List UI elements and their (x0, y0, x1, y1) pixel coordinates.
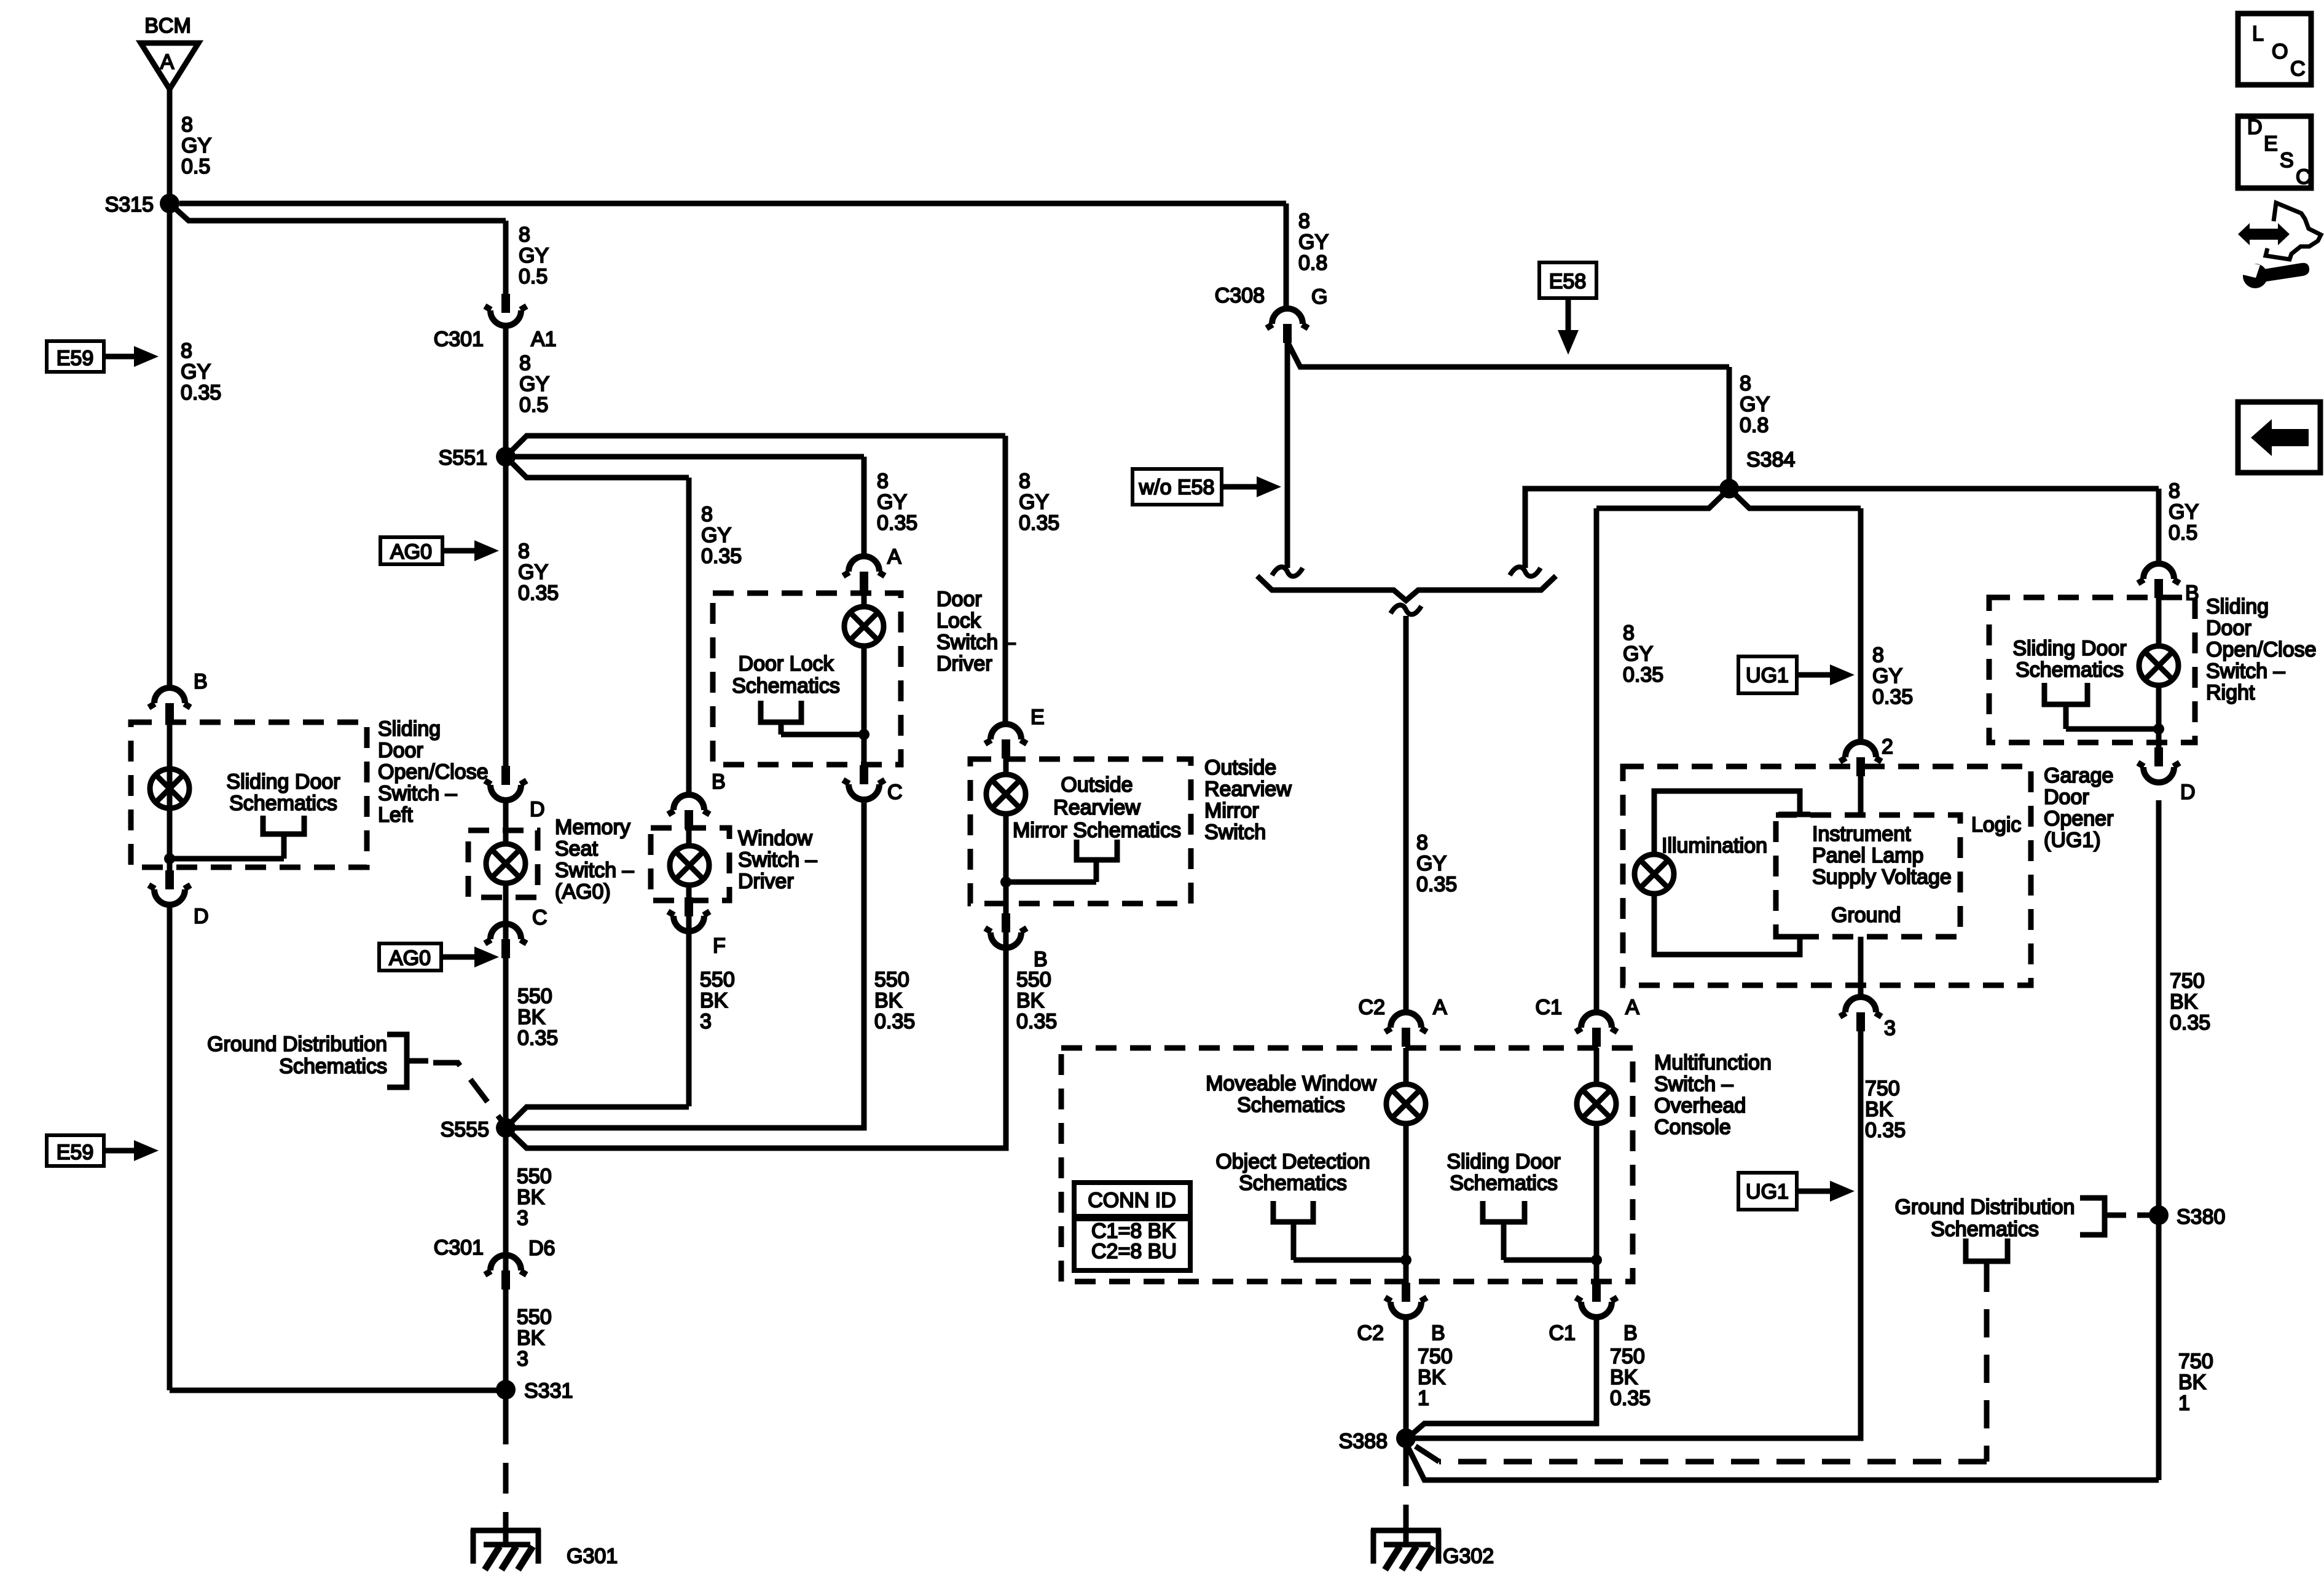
svg-text:750: 750 (2170, 969, 2205, 993)
svg-text:Window: Window (738, 827, 812, 850)
svg-text:8: 8 (1416, 831, 1428, 854)
svg-text:Overhead: Overhead (1654, 1094, 1746, 1117)
svg-text:B: B (2185, 581, 2199, 605)
svg-text:Door: Door (2206, 616, 2251, 640)
svg-text:A1: A1 (531, 328, 557, 351)
svg-text:Switch –: Switch – (2206, 660, 2285, 683)
svg-text:S388: S388 (1339, 1430, 1388, 1453)
svg-text:550: 550 (700, 968, 735, 991)
svg-text:1: 1 (1418, 1387, 1429, 1410)
svg-text:AG0: AG0 (389, 947, 431, 970)
svg-text:0.5: 0.5 (519, 265, 548, 288)
svg-text:GY: GY (181, 134, 211, 157)
svg-text:Schematics: Schematics (732, 674, 840, 698)
svg-text:Garage: Garage (2044, 764, 2113, 787)
svg-text:BK: BK (2178, 1371, 2207, 1394)
svg-text:0.35: 0.35 (877, 511, 917, 535)
svg-text:BK: BK (1865, 1098, 1893, 1121)
svg-text:8: 8 (519, 223, 530, 246)
svg-text:Switch –: Switch – (936, 631, 1016, 654)
svg-text:Schematics: Schematics (279, 1055, 387, 1078)
svg-text:8: 8 (181, 113, 193, 136)
svg-text:Ground Distribution: Ground Distribution (1895, 1195, 2075, 1219)
svg-text:Sliding: Sliding (2206, 595, 2269, 618)
svg-text:Switch –: Switch – (378, 782, 457, 805)
svg-text:0.35: 0.35 (1865, 1119, 1906, 1142)
svg-text:0.35: 0.35 (701, 545, 742, 568)
svg-text:Panel Lamp: Panel Lamp (1812, 844, 1923, 867)
svg-text:8: 8 (1623, 621, 1635, 645)
svg-text:A: A (1625, 996, 1639, 1019)
svg-text:Outside: Outside (1061, 773, 1133, 797)
svg-text:0.35: 0.35 (2170, 1011, 2210, 1034)
svg-text:3: 3 (517, 1347, 528, 1371)
svg-text:E59: E59 (57, 347, 94, 370)
svg-text:Lock: Lock (936, 609, 981, 632)
svg-text:GY: GY (1872, 664, 1902, 688)
svg-text:8: 8 (518, 540, 530, 563)
svg-text:(AG0): (AG0) (555, 880, 611, 904)
svg-text:3: 3 (700, 1010, 712, 1033)
svg-text:B: B (712, 770, 726, 793)
svg-text:E: E (1030, 706, 1045, 729)
svg-text:Door Lock: Door Lock (739, 652, 834, 675)
svg-text:Schematics: Schematics (1237, 1093, 1345, 1117)
svg-text:GY: GY (1740, 393, 1770, 416)
svg-text:Schematics: Schematics (1450, 1171, 1558, 1195)
svg-text:F: F (713, 934, 726, 958)
svg-text:Left: Left (378, 803, 413, 827)
svg-text:750: 750 (1418, 1345, 1453, 1368)
svg-text:E59: E59 (57, 1141, 94, 1164)
svg-text:Ground Distribution: Ground Distribution (207, 1033, 387, 1056)
svg-text:GY: GY (701, 524, 731, 547)
svg-text:Multifunction: Multifunction (1654, 1051, 1772, 1074)
svg-text:BK: BK (517, 1186, 545, 1209)
svg-text:Object Detection: Object Detection (1215, 1150, 1370, 1173)
svg-text:0.8: 0.8 (1298, 251, 1327, 275)
svg-text:C1: C1 (1549, 1321, 1576, 1345)
svg-text:Sliding Door: Sliding Door (1447, 1150, 1560, 1173)
svg-text:Supply Voltage: Supply Voltage (1812, 865, 1952, 889)
svg-text:A: A (1433, 996, 1447, 1019)
svg-text:Right: Right (2206, 681, 2255, 704)
svg-text:S551: S551 (439, 446, 487, 470)
svg-text:3: 3 (1884, 1017, 1896, 1040)
svg-text:1: 1 (2178, 1392, 2190, 1415)
svg-text:S315: S315 (105, 193, 154, 216)
svg-text:C2: C2 (1357, 1321, 1384, 1345)
svg-text:8: 8 (1740, 372, 1751, 395)
svg-text:L: L (2252, 22, 2264, 45)
svg-text:B: B (1431, 1321, 1445, 1345)
svg-text:Seat: Seat (555, 837, 598, 860)
svg-text:CONN ID: CONN ID (1088, 1189, 1176, 1212)
svg-text:Driver: Driver (738, 870, 794, 893)
svg-text:C301: C301 (434, 1236, 484, 1259)
svg-text:8: 8 (877, 470, 889, 493)
svg-text:B: B (194, 670, 208, 693)
svg-text:Ground: Ground (1831, 904, 1901, 927)
svg-text:Switch –: Switch – (738, 848, 817, 872)
svg-text:AG0: AG0 (390, 540, 432, 564)
svg-text:Sliding Door: Sliding Door (2012, 637, 2126, 660)
svg-text:C2=8 BU: C2=8 BU (1091, 1240, 1177, 1263)
svg-text:BCM: BCM (144, 14, 191, 37)
svg-text:S: S (2280, 149, 2294, 172)
svg-text:8: 8 (1872, 644, 1884, 667)
svg-text:A: A (887, 545, 901, 569)
svg-text:750: 750 (1610, 1345, 1645, 1368)
svg-text:GY: GY (2169, 500, 2199, 524)
svg-text:B: B (1623, 1321, 1638, 1345)
svg-text:0.35: 0.35 (1016, 1010, 1057, 1033)
svg-text:Instrument: Instrument (1812, 822, 1911, 846)
svg-text:Mirror: Mirror (1204, 799, 1259, 822)
svg-text:550: 550 (517, 1165, 552, 1188)
svg-text:Schematics: Schematics (1931, 1218, 2039, 1241)
svg-text:8: 8 (2169, 479, 2180, 503)
svg-text:Driver: Driver (936, 652, 992, 675)
svg-text:Switch –: Switch – (555, 859, 634, 882)
svg-text:750: 750 (1865, 1077, 1900, 1100)
svg-text:Schematics: Schematics (2016, 658, 2124, 682)
svg-text:0.35: 0.35 (181, 381, 221, 404)
svg-text:S331: S331 (524, 1379, 573, 1403)
svg-text:GY: GY (518, 561, 548, 584)
svg-text:BK: BK (874, 989, 903, 1012)
svg-text:0.35: 0.35 (1416, 873, 1457, 896)
svg-text:BK: BK (1016, 989, 1045, 1012)
svg-text:0.35: 0.35 (517, 1026, 558, 1050)
svg-text:Schematics: Schematics (229, 792, 337, 815)
svg-text:C308: C308 (1215, 284, 1265, 307)
svg-text:8: 8 (701, 503, 713, 526)
svg-text:BK: BK (2170, 990, 2198, 1014)
svg-text:Mirror Schematics: Mirror Schematics (1013, 819, 1181, 842)
svg-text:GY: GY (1623, 642, 1653, 666)
svg-text:550: 550 (517, 985, 552, 1008)
svg-text:0.5: 0.5 (2169, 521, 2197, 545)
svg-text:0.35: 0.35 (1872, 685, 1913, 709)
svg-text:550: 550 (517, 1305, 552, 1329)
svg-text:D: D (194, 905, 209, 928)
svg-text:8: 8 (519, 352, 531, 375)
svg-text:Schematics: Schematics (1239, 1171, 1347, 1195)
svg-text:S384: S384 (1746, 448, 1795, 471)
svg-text:Sliding: Sliding (378, 717, 441, 741)
svg-text:C: C (2290, 57, 2306, 81)
svg-text:G301: G301 (567, 1545, 618, 1568)
svg-text:Door: Door (2044, 786, 2089, 809)
svg-text:Memory: Memory (555, 816, 630, 839)
svg-text:8: 8 (1019, 470, 1030, 493)
svg-text:UG1: UG1 (1746, 1180, 1789, 1203)
svg-text:D: D (530, 798, 545, 821)
svg-text:w/o E58: w/o E58 (1139, 476, 1215, 499)
svg-text:0.35: 0.35 (1610, 1387, 1651, 1410)
svg-text:Open/Close: Open/Close (378, 760, 489, 784)
svg-text:BK: BK (1610, 1366, 1638, 1389)
svg-text:0.8: 0.8 (1740, 414, 1769, 437)
svg-text:D: D (2180, 781, 2196, 804)
svg-text:UG1: UG1 (1746, 664, 1789, 687)
svg-text:GY: GY (1019, 490, 1049, 514)
svg-text:C1: C1 (1536, 996, 1562, 1019)
svg-text:Open/Close: Open/Close (2206, 638, 2317, 661)
svg-text:D: D (2247, 116, 2263, 139)
svg-text:BK: BK (517, 1006, 546, 1029)
svg-text:O: O (2272, 40, 2288, 63)
svg-text:GY: GY (1298, 230, 1329, 254)
svg-text:Switch –: Switch – (1654, 1073, 1733, 1096)
svg-text:Moveable Window: Moveable Window (1206, 1072, 1376, 1095)
svg-text:0.35: 0.35 (1019, 511, 1059, 535)
svg-text:GY: GY (1416, 852, 1447, 875)
svg-text:Outside: Outside (1204, 756, 1276, 779)
svg-text:C: C (887, 781, 903, 804)
svg-text:BK: BK (1418, 1366, 1446, 1389)
svg-text:Sliding Door: Sliding Door (226, 770, 340, 793)
svg-text:Console: Console (1654, 1116, 1731, 1139)
svg-text:D6: D6 (528, 1237, 555, 1260)
svg-text:S555: S555 (441, 1118, 489, 1141)
svg-text:GY: GY (877, 490, 907, 514)
svg-text:0.5: 0.5 (519, 393, 548, 417)
svg-text:Opener: Opener (2044, 807, 2113, 830)
svg-text:BK: BK (700, 989, 728, 1012)
svg-text:GY: GY (519, 372, 549, 396)
svg-text:Door: Door (378, 739, 423, 762)
svg-text:GY: GY (519, 244, 549, 267)
svg-text:2: 2 (1882, 735, 1893, 758)
svg-text:(UG1): (UG1) (2044, 829, 2101, 852)
svg-text:Rearview: Rearview (1204, 778, 1292, 801)
svg-text:0.35: 0.35 (874, 1010, 915, 1033)
svg-text:8: 8 (181, 339, 192, 363)
svg-text:G302: G302 (1443, 1545, 1494, 1568)
svg-text:E58: E58 (1549, 270, 1587, 293)
svg-text:GY: GY (181, 360, 211, 384)
svg-text:Switch: Switch (1204, 821, 1266, 844)
svg-text:A: A (160, 50, 175, 74)
svg-text:G: G (1311, 285, 1327, 309)
svg-text:S380: S380 (2177, 1205, 2225, 1229)
svg-text:Logic: Logic (1971, 813, 2021, 837)
svg-text:750: 750 (2178, 1350, 2213, 1373)
svg-text:550: 550 (1016, 968, 1051, 991)
svg-text:8: 8 (1298, 210, 1310, 233)
svg-text:3: 3 (517, 1207, 528, 1230)
svg-text:550: 550 (874, 968, 909, 991)
svg-text:Illumination: Illumination (1662, 834, 1767, 857)
svg-text:C301: C301 (434, 328, 484, 351)
svg-text:C: C (532, 906, 548, 929)
svg-text:C: C (2296, 165, 2311, 189)
svg-text:Door: Door (936, 588, 982, 611)
svg-text:Rearview: Rearview (1053, 796, 1140, 819)
svg-text:0.35: 0.35 (518, 581, 559, 605)
svg-text:0.35: 0.35 (1623, 663, 1663, 687)
svg-text:0.5: 0.5 (181, 155, 210, 178)
svg-text:C2: C2 (1359, 996, 1385, 1019)
svg-text:BK: BK (517, 1326, 545, 1350)
svg-text:E: E (2264, 132, 2278, 156)
